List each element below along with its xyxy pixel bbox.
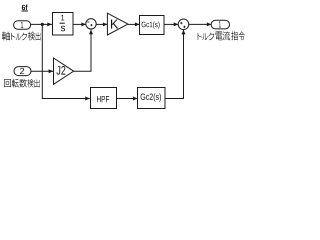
label shaft torque detect — [2, 32, 41, 41]
label speed detect — [4, 79, 40, 88]
wire J2 up to sum1 — [74, 30, 93, 72]
junction dot — [41, 23, 44, 26]
input port 2 oval — [14, 67, 31, 76]
annotation theta-f underlined — [22, 5, 29, 12]
sum junction 2 — [178, 19, 189, 30]
output port 1 oval — [211, 20, 229, 29]
gain J2 triangle — [54, 58, 74, 84]
wire integrator to sum1 — [73, 22, 86, 26]
wire K to Gc1 — [128, 22, 140, 26]
wire sum1 to gain K — [96, 22, 108, 26]
wire junction down to HPF — [42, 24, 90, 100]
input port 1 oval — [14, 21, 31, 30]
wire Gc2 up to sum2 — [165, 30, 186, 99]
wire Gc1 to sum2 — [164, 22, 178, 26]
integrator block 1/s — [53, 13, 74, 36]
block Gc2(s) — [138, 88, 166, 109]
wire port1 to integrator — [31, 22, 52, 26]
wire port2 to gain J2 — [31, 69, 53, 73]
block Gc1(s) — [140, 16, 165, 35]
gain K triangle — [107, 13, 128, 35]
label torque current command — [198, 31, 245, 40]
wire sum2 to output port — [189, 22, 212, 26]
block HPF — [91, 88, 117, 109]
sum junction 1 — [86, 19, 96, 29]
wire HPF to Gc2 — [117, 97, 138, 101]
